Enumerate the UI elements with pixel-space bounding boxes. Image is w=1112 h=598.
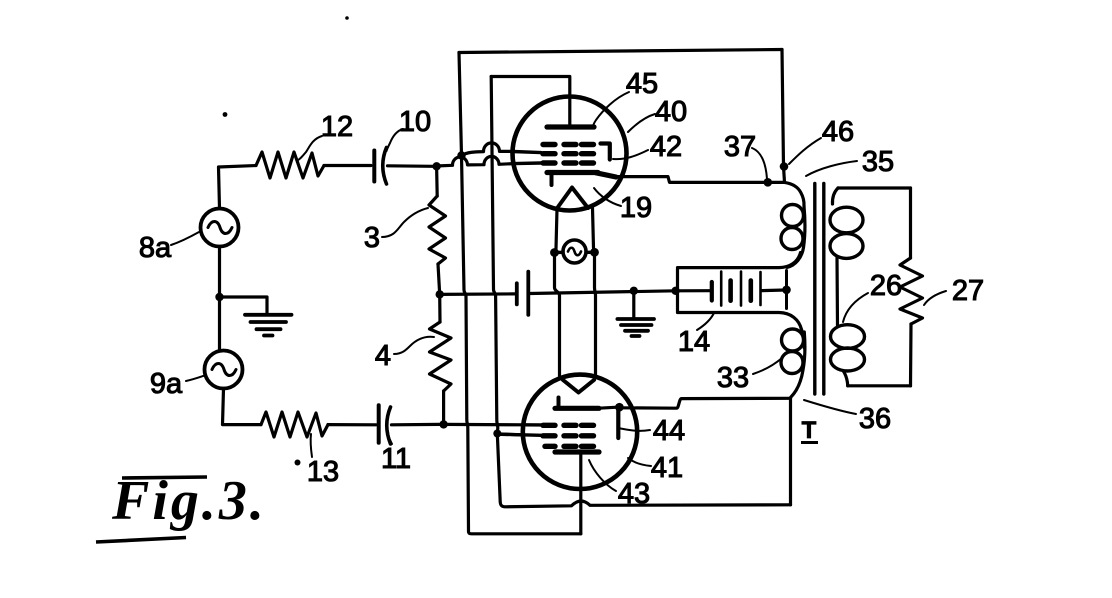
- svg-text:10: 10: [399, 106, 431, 138]
- svg-text:44: 44: [653, 415, 685, 447]
- svg-text:27: 27: [952, 275, 984, 307]
- svg-text:42: 42: [650, 131, 682, 163]
- svg-text:4: 4: [375, 340, 391, 372]
- svg-text:36: 36: [859, 403, 891, 435]
- svg-text:14: 14: [678, 326, 710, 358]
- svg-text:T: T: [802, 417, 817, 444]
- svg-text:33: 33: [717, 362, 749, 394]
- svg-text:45: 45: [626, 68, 658, 100]
- svg-text:35: 35: [862, 146, 894, 178]
- svg-text:13: 13: [307, 456, 339, 488]
- svg-text:46: 46: [822, 116, 854, 148]
- svg-text:40: 40: [655, 96, 687, 128]
- svg-text:26: 26: [870, 270, 902, 302]
- svg-text:41: 41: [651, 452, 683, 484]
- svg-text:12: 12: [321, 111, 353, 143]
- svg-text:37: 37: [724, 131, 756, 163]
- svg-text:3: 3: [364, 222, 380, 254]
- svg-text:9a: 9a: [150, 368, 183, 400]
- svg-text:8a: 8a: [139, 232, 172, 264]
- svg-text:11: 11: [381, 443, 411, 475]
- svg-text:19: 19: [620, 192, 652, 224]
- svg-text:43: 43: [618, 478, 650, 510]
